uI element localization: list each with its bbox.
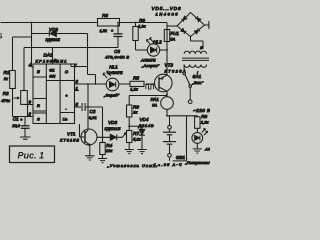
wiper arrow R2: [14, 97, 20, 99]
wire HL2 to main column: [160, 49, 167, 51]
svg-text:„Заряд”: „Заряд”: [103, 93, 120, 98]
svg-text:470к: 470к: [1, 98, 11, 103]
svg-text:PA1: PA1: [151, 97, 160, 102]
wire bridge bottom to winding II: [191, 37, 204, 50]
svg-text:R9: R9: [201, 114, 207, 119]
wire VT1 base feed stub: [79, 124, 81, 137]
svg-text:1,2к: 1,2к: [201, 120, 210, 125]
wire return loop: [170, 116, 187, 161]
svg-text:VD5...VD8: VD5...VD8: [152, 6, 181, 11]
wire top supply rail: [1, 22, 168, 24]
svg-text:КД521Б: КД521Б: [105, 126, 121, 131]
svg-text:0,01: 0,01: [89, 115, 97, 120]
wire R6 top to VT2 collector column: [129, 96, 167, 106]
diode VD2: [49, 31, 56, 37]
wire collector riser VT1: [87, 84, 89, 129]
svg-text:DA1: DA1: [44, 53, 53, 58]
wire pin3 output to HL1 and R5: [75, 83, 130, 85]
node VD4 branch: [128, 125, 130, 127]
resistor R9: [195, 116, 200, 133]
svg-text:S: S: [37, 117, 40, 122]
svg-text:R7: R7: [133, 131, 139, 136]
wire VT1 collector-right to VD3: [97, 136, 122, 138]
wire bridge right stub: [205, 21, 209, 29]
LED HL1: [103, 71, 119, 91]
resistor R3: [98, 19, 120, 27]
svg-text:КТ815Б: КТ815Б: [60, 137, 79, 142]
wire link pin6 to pin2: [27, 105, 29, 117]
svg-text:C2: C2: [90, 109, 96, 114]
figure caption box: [0, 34, 55, 163]
wire R2 branch: [23, 48, 25, 105]
svg-text:FU1: FU1: [170, 31, 179, 36]
transformer T1 winding II: [184, 51, 206, 54]
ground R7: [125, 150, 134, 154]
svg-text:VD2: VD2: [49, 27, 58, 32]
zener VD4: [139, 126, 145, 149]
svg-text:R5: R5: [133, 76, 139, 81]
svg-text:„Вкл.”: „Вкл.”: [192, 80, 204, 85]
resistor R8: [133, 23, 138, 51]
node meter top: [166, 93, 168, 95]
svg-text:Рис. 1: Рис. 1: [18, 150, 45, 160]
switch SA1: [183, 65, 192, 104]
ammeter PA1: [161, 97, 174, 110]
svg-text:КР1006ВИ1: КР1006ВИ1: [36, 58, 67, 63]
node rail-riser junction: [31, 22, 33, 24]
potentiometer R2: [21, 91, 28, 105]
wire pin8 stub: [52, 48, 54, 65]
battery GB1: [163, 116, 176, 157]
wire pin6 net from R2: [24, 104, 33, 106]
svg-text:2: 2: [28, 112, 32, 117]
svg-text:~220 В: ~220 В: [193, 108, 210, 113]
svg-text:HL2: HL2: [153, 40, 162, 45]
diode VD3: [110, 134, 116, 140]
wire R1 branch: [13, 37, 32, 117]
wire to VD4: [129, 125, 142, 127]
svg-text:VT1: VT1: [67, 132, 76, 137]
svg-text:C3: C3: [114, 49, 120, 54]
wire plus bus right: [167, 115, 197, 117]
svg-text:12к: 12к: [106, 148, 113, 153]
node HL2 column: [166, 49, 168, 51]
potentiometer R7: [127, 131, 132, 143]
wire R6 to R7: [128, 117, 130, 131]
svg-text:HL1: HL1: [109, 65, 118, 70]
svg-text:VT2: VT2: [165, 63, 174, 68]
bridge VD5-VD8: [177, 13, 205, 37]
svg-text:„Авария”: „Авария”: [141, 63, 160, 68]
svg-text:VD3: VD3: [108, 120, 117, 125]
svg-text:1N4005: 1N4005: [156, 12, 179, 17]
node pin3 collector junction: [87, 83, 89, 85]
svg-text:5,1к: 5,1к: [133, 136, 142, 141]
svg-text:5А: 5А: [170, 36, 175, 41]
svg-text:10,0: 10,0: [12, 123, 21, 128]
svg-text:1,2к: 1,2к: [130, 87, 139, 92]
svg-text:GB1: GB1: [176, 155, 186, 160]
ground VD4: [138, 150, 147, 154]
svg-text:470,0×50 В: 470,0×50 В: [105, 55, 129, 60]
wire pin7 jog to VD2 line: [71, 34, 96, 85]
svg-text:VD4: VD4: [140, 117, 149, 122]
node link bottom: [27, 116, 29, 118]
node R4 junction: [102, 136, 104, 138]
transistor VT1: [80, 129, 98, 145]
wire VT2 collector down: [166, 91, 168, 97]
svg-text:Uг: Uг: [63, 117, 68, 122]
resistor R6: [127, 105, 132, 117]
svg-text:1...65 А·Ч: 1...65 А·Ч: [154, 162, 182, 167]
svg-text:Ω: Ω: [65, 69, 68, 74]
transistor VT2: [155, 74, 173, 92]
svg-text:АЛ307Б: АЛ307Б: [107, 70, 123, 75]
transformer core: [182, 58, 209, 60]
wire pin2 net from R1: [13, 116, 34, 118]
capacitor C1: [21, 117, 30, 137]
wire R5 to VT2 base: [146, 83, 160, 85]
svg-text:SA1: SA1: [193, 74, 202, 79]
wire C2 drop to R4 node: [102, 107, 104, 137]
resistor R5: [130, 81, 144, 86]
svg-text:R8: R8: [139, 18, 145, 23]
wiper arrow into R7: [122, 132, 126, 137]
wire pin1 stub: [75, 90, 80, 92]
svg-text:Д814В: Д814В: [138, 123, 154, 128]
svg-text:E: E: [37, 69, 40, 74]
svg-text:АЛ: АЛ: [204, 147, 210, 152]
pulse waveform symbol: [146, 85, 154, 90]
resistor R1: [10, 71, 16, 89]
paper background: [0, 0, 210, 170]
svg-text:G1: G1: [49, 68, 54, 73]
svg-text:R1: R1: [4, 70, 10, 75]
op-amp U1 : timer DA1 box: [33, 64, 75, 124]
node C3 rail: [117, 22, 119, 24]
LED HL3: [192, 129, 208, 144]
wire left riser to VD2 and pin4: [32, 23, 34, 68]
capacitor C3: [114, 23, 123, 48]
wire HL3 down: [196, 143, 198, 148]
LED HL2: [136, 38, 160, 56]
wire VT1 emitter: [89, 145, 91, 155]
svg-text:„Полярность”: „Полярность”: [185, 160, 211, 165]
ground VT1: [85, 156, 94, 160]
node battery plus: [166, 115, 168, 117]
svg-text:GN: GN: [49, 74, 55, 79]
ground R4: [98, 159, 107, 163]
svg-text:5А: 5А: [152, 103, 157, 108]
svg-text:1,5к: 1,5к: [100, 28, 109, 33]
svg-text:АЛ307Б: АЛ307Б: [140, 57, 156, 62]
svg-text:КД521Б: КД521Б: [46, 37, 61, 42]
wire pins 4/8 feed: [24, 47, 118, 49]
svg-text:Б: Б: [0, 34, 3, 41]
resistor R4: [100, 137, 105, 158]
wire R7 bottom: [128, 143, 130, 150]
svg-text:„Установка Uвых.”: „Установка Uвых.”: [107, 163, 161, 168]
fuse FU1: [164, 23, 169, 75]
svg-text:R: R: [37, 103, 40, 108]
node link top: [27, 104, 29, 106]
svg-text:R3: R3: [102, 13, 108, 18]
svg-text:C1: C1: [13, 116, 19, 121]
transformer T1 winding I: [184, 65, 206, 68]
wire meter to battery node: [166, 109, 168, 116]
node R8 rail: [135, 22, 137, 24]
svg-text:1,2к: 1,2к: [138, 23, 147, 28]
ground HL3: [193, 149, 202, 153]
svg-text:R2: R2: [3, 91, 9, 96]
ground under C1: [20, 137, 31, 139]
capacitor C2: [75, 103, 103, 111]
wire rail to bridge left: [167, 25, 177, 27]
wire VD2 branch: [32, 33, 88, 35]
